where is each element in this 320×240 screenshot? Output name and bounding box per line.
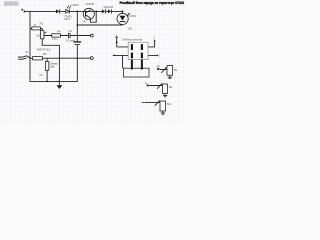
svg-text:АЛ307: АЛ307 xyxy=(71,3,80,7)
svg-text:S1: S1 xyxy=(25,50,29,54)
svg-text:16В: 16В xyxy=(50,65,55,69)
svg-text:4А: 4А xyxy=(156,64,159,68)
svg-text:R2: R2 xyxy=(40,22,44,26)
svg-text:R7: R7 xyxy=(83,20,87,24)
svg-text:КД213А: КД213А xyxy=(104,5,114,9)
svg-text:R5: R5 xyxy=(43,52,47,56)
svg-text:Тумблер контактов: Тумблер контактов xyxy=(122,40,143,42)
svg-text:С3: С3 xyxy=(68,29,72,33)
svg-text:КТ815Г: КТ815Г xyxy=(86,2,96,6)
svg-text:Вн: Вн xyxy=(174,68,178,72)
svg-text:1,0 мкф: 1,0 мкф xyxy=(65,38,76,42)
svg-text:КМОП ГД-1: КМОП ГД-1 xyxy=(37,47,52,51)
svg-text:А: А xyxy=(145,81,147,85)
svg-text:С5: С5 xyxy=(39,73,43,77)
svg-text:КУ202: КУ202 xyxy=(128,14,136,18)
svg-text:Вн: Вн xyxy=(169,85,173,89)
svg-text:Вкл: Вкл xyxy=(167,102,172,106)
svg-text:VS1: VS1 xyxy=(128,27,134,31)
svg-text:1,5 к: 1,5 к xyxy=(52,37,58,41)
svg-text:СМ 1: СМ 1 xyxy=(64,17,71,21)
svg-text:Релейный блок заряда на тирист: Релейный блок заряда на тиристоре КУ202 xyxy=(120,0,185,5)
svg-text:R4: R4 xyxy=(57,30,61,34)
